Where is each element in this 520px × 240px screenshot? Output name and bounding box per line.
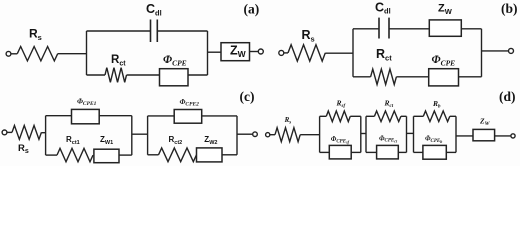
node: loop right vertical (b) <box>481 29 483 77</box>
node: loop2 left vertical (c) <box>147 116 149 155</box>
resistor Rsf (d) <box>326 111 350 122</box>
wire bottom branch right (a) <box>127 74 208 76</box>
label ZW (a) <box>230 44 247 60</box>
Warburg element box ZW (b) <box>429 20 461 36</box>
wire between loops (c) <box>132 133 148 135</box>
label Rs (d) <box>284 116 292 126</box>
label (b) <box>501 1 518 16</box>
label PhiCPE2 (c) <box>180 97 200 108</box>
wire <box>495 135 511 137</box>
wire top branch right (a) <box>157 30 207 32</box>
wire top branch right (b) <box>461 28 481 30</box>
wire block3 top right (d) <box>450 115 456 117</box>
svg-text:(b): (b) <box>501 1 518 16</box>
Warburg element box ZW2 (c) <box>197 148 223 162</box>
wire block3 bottom right (d) <box>446 151 456 153</box>
label Rct (a) <box>111 54 126 67</box>
wire <box>7 131 12 133</box>
wire loop2 bottom left (c) <box>148 154 159 156</box>
label ZW (b) <box>438 2 453 15</box>
label ZW1 (c) <box>100 135 113 146</box>
wire block2 bottom left (d) <box>366 151 377 153</box>
circuit a: terminal left <box>6 51 11 56</box>
wire block1 top left (d) <box>320 115 327 117</box>
node: block3 right vertical (d) <box>455 116 457 152</box>
wire <box>237 133 253 135</box>
wire block3 top left (d) <box>414 115 424 117</box>
resistor Rct2 (c) <box>159 148 197 162</box>
Warburg element box ZW (a) <box>221 43 250 61</box>
wire <box>208 51 222 53</box>
resistor Rs (c) <box>12 126 41 140</box>
wire block2 bottom right (d) <box>398 151 406 153</box>
wire top branch left (a) <box>87 30 151 32</box>
node: loop left vertical (b) <box>352 29 354 77</box>
wire <box>300 134 319 136</box>
wire bottom branch left (b) <box>353 76 371 78</box>
circuit d: terminal right <box>511 134 515 138</box>
label (c) <box>240 89 255 104</box>
node: loop left vertical (a) <box>86 31 88 75</box>
label Rs (a) <box>29 27 42 43</box>
label PhiCPEct (d) <box>379 134 398 143</box>
label (a) <box>244 2 260 17</box>
wire <box>456 135 473 137</box>
wire loop1 bottom left (c) <box>46 154 57 156</box>
resistor Rct (a) <box>105 68 127 83</box>
wire <box>41 132 45 134</box>
resistor Rs (d) <box>275 128 300 142</box>
circuit b: terminal left <box>279 50 284 55</box>
wire <box>58 53 87 55</box>
svg-text:(d): (d) <box>499 89 516 104</box>
label Rct2 (c) <box>169 135 183 146</box>
circuit d: terminal left <box>266 133 270 137</box>
label PhiCPEsf (d) <box>331 135 350 144</box>
label Rsf (d) <box>336 99 347 110</box>
Warburg element box ZW (d) <box>473 129 495 140</box>
resistor Rct1 (c) <box>57 148 93 161</box>
label Cdl (a) <box>146 2 162 17</box>
node: block2 right vertical (d) <box>406 116 408 152</box>
wire <box>325 52 353 54</box>
label Rb (d) <box>432 99 441 110</box>
label ZW (d) <box>479 116 491 127</box>
wire <box>482 50 509 52</box>
node: loop1 right vertical (c) <box>131 116 133 155</box>
label Rct1 (c) <box>66 135 80 146</box>
wire <box>250 51 259 53</box>
wire top branch mid (b) <box>389 28 429 30</box>
resistor Rb (d) <box>423 111 450 122</box>
node: loop right vertical (a) <box>207 31 209 75</box>
label Rs (b) <box>302 28 315 44</box>
capacitor Cdl (b) <box>379 18 389 39</box>
node: block3 left vertical (d) <box>413 116 415 152</box>
label Rs (c) <box>18 143 29 155</box>
node: loop1 left vertical (c) <box>45 116 47 155</box>
label Rct (d) <box>384 98 394 109</box>
wire block1 top right (d) <box>350 115 361 117</box>
wire top branch left (b) <box>353 28 379 30</box>
wire <box>11 53 17 55</box>
wire block1 bottom right (d) <box>351 151 361 153</box>
wire <box>270 134 275 136</box>
CPE element box PhiCPE (a) <box>160 69 189 86</box>
wire block1 bottom left (d) <box>320 151 330 153</box>
circuit a: terminal right <box>258 49 263 54</box>
wire block2 top left (d) <box>366 115 374 117</box>
circuit c: terminal left <box>2 130 7 135</box>
label PhiCPEb (d) <box>425 135 442 144</box>
Warburg element box ZW1 (c) <box>94 149 119 163</box>
CPE element box PhiCPEsf (d) <box>329 145 351 159</box>
label PhiCPE (b) <box>432 54 456 68</box>
wire loop1 top left (c) <box>46 115 72 117</box>
wire between block1 and block2 (d) <box>361 133 366 135</box>
wire loop2 top right (c) <box>202 115 237 117</box>
label ZW2 (c) <box>204 135 217 146</box>
node: loop2 right vertical (c) <box>236 116 238 155</box>
wire block2 top right (d) <box>401 115 407 117</box>
resistor Rct (d) <box>374 111 401 122</box>
circuit b: terminal right <box>509 48 514 53</box>
resistor Rs (b) <box>288 45 325 61</box>
svg-text:(a): (a) <box>244 2 260 17</box>
label Cdl (b) <box>375 0 391 15</box>
svg-text:(c): (c) <box>240 89 255 104</box>
wire loop1 bottom right (c) <box>119 154 132 156</box>
node: block2 left vertical (d) <box>365 116 367 152</box>
CPE element box PhiCPEct (d) <box>377 145 399 159</box>
wire <box>284 52 288 54</box>
node: block1 right vertical (d) <box>360 116 362 152</box>
CPE element box PhiCPEb (d) <box>423 145 446 159</box>
wire loop1 top right (c) <box>99 115 132 117</box>
CPE element box PhiCPE2 (c) <box>174 110 202 124</box>
wire bottom branch right (b) <box>396 76 481 78</box>
circuit c: terminal right <box>253 132 258 137</box>
label PhiCPE1 (c) <box>77 96 97 107</box>
CPE element box PhiCPE (b) <box>429 69 459 86</box>
capacitor Cdl (a) <box>151 20 158 43</box>
wire between block2 and block3 (d) <box>407 132 414 134</box>
wire block3 bottom left (d) <box>414 151 423 153</box>
wire bottom branch left (a) <box>87 74 106 76</box>
label Rct (b) <box>376 47 392 63</box>
CPE element box PhiCPE1 (c) <box>72 109 100 123</box>
wire loop2 top left (c) <box>148 115 175 117</box>
label (d) <box>499 89 516 104</box>
wire loop2 bottom right (c) <box>222 154 237 156</box>
resistor Rs (a) <box>17 47 57 61</box>
resistor Rct (b) <box>371 69 397 84</box>
label PhiCPE (a) <box>163 54 187 68</box>
node: block1 left vertical (d) <box>319 116 321 152</box>
